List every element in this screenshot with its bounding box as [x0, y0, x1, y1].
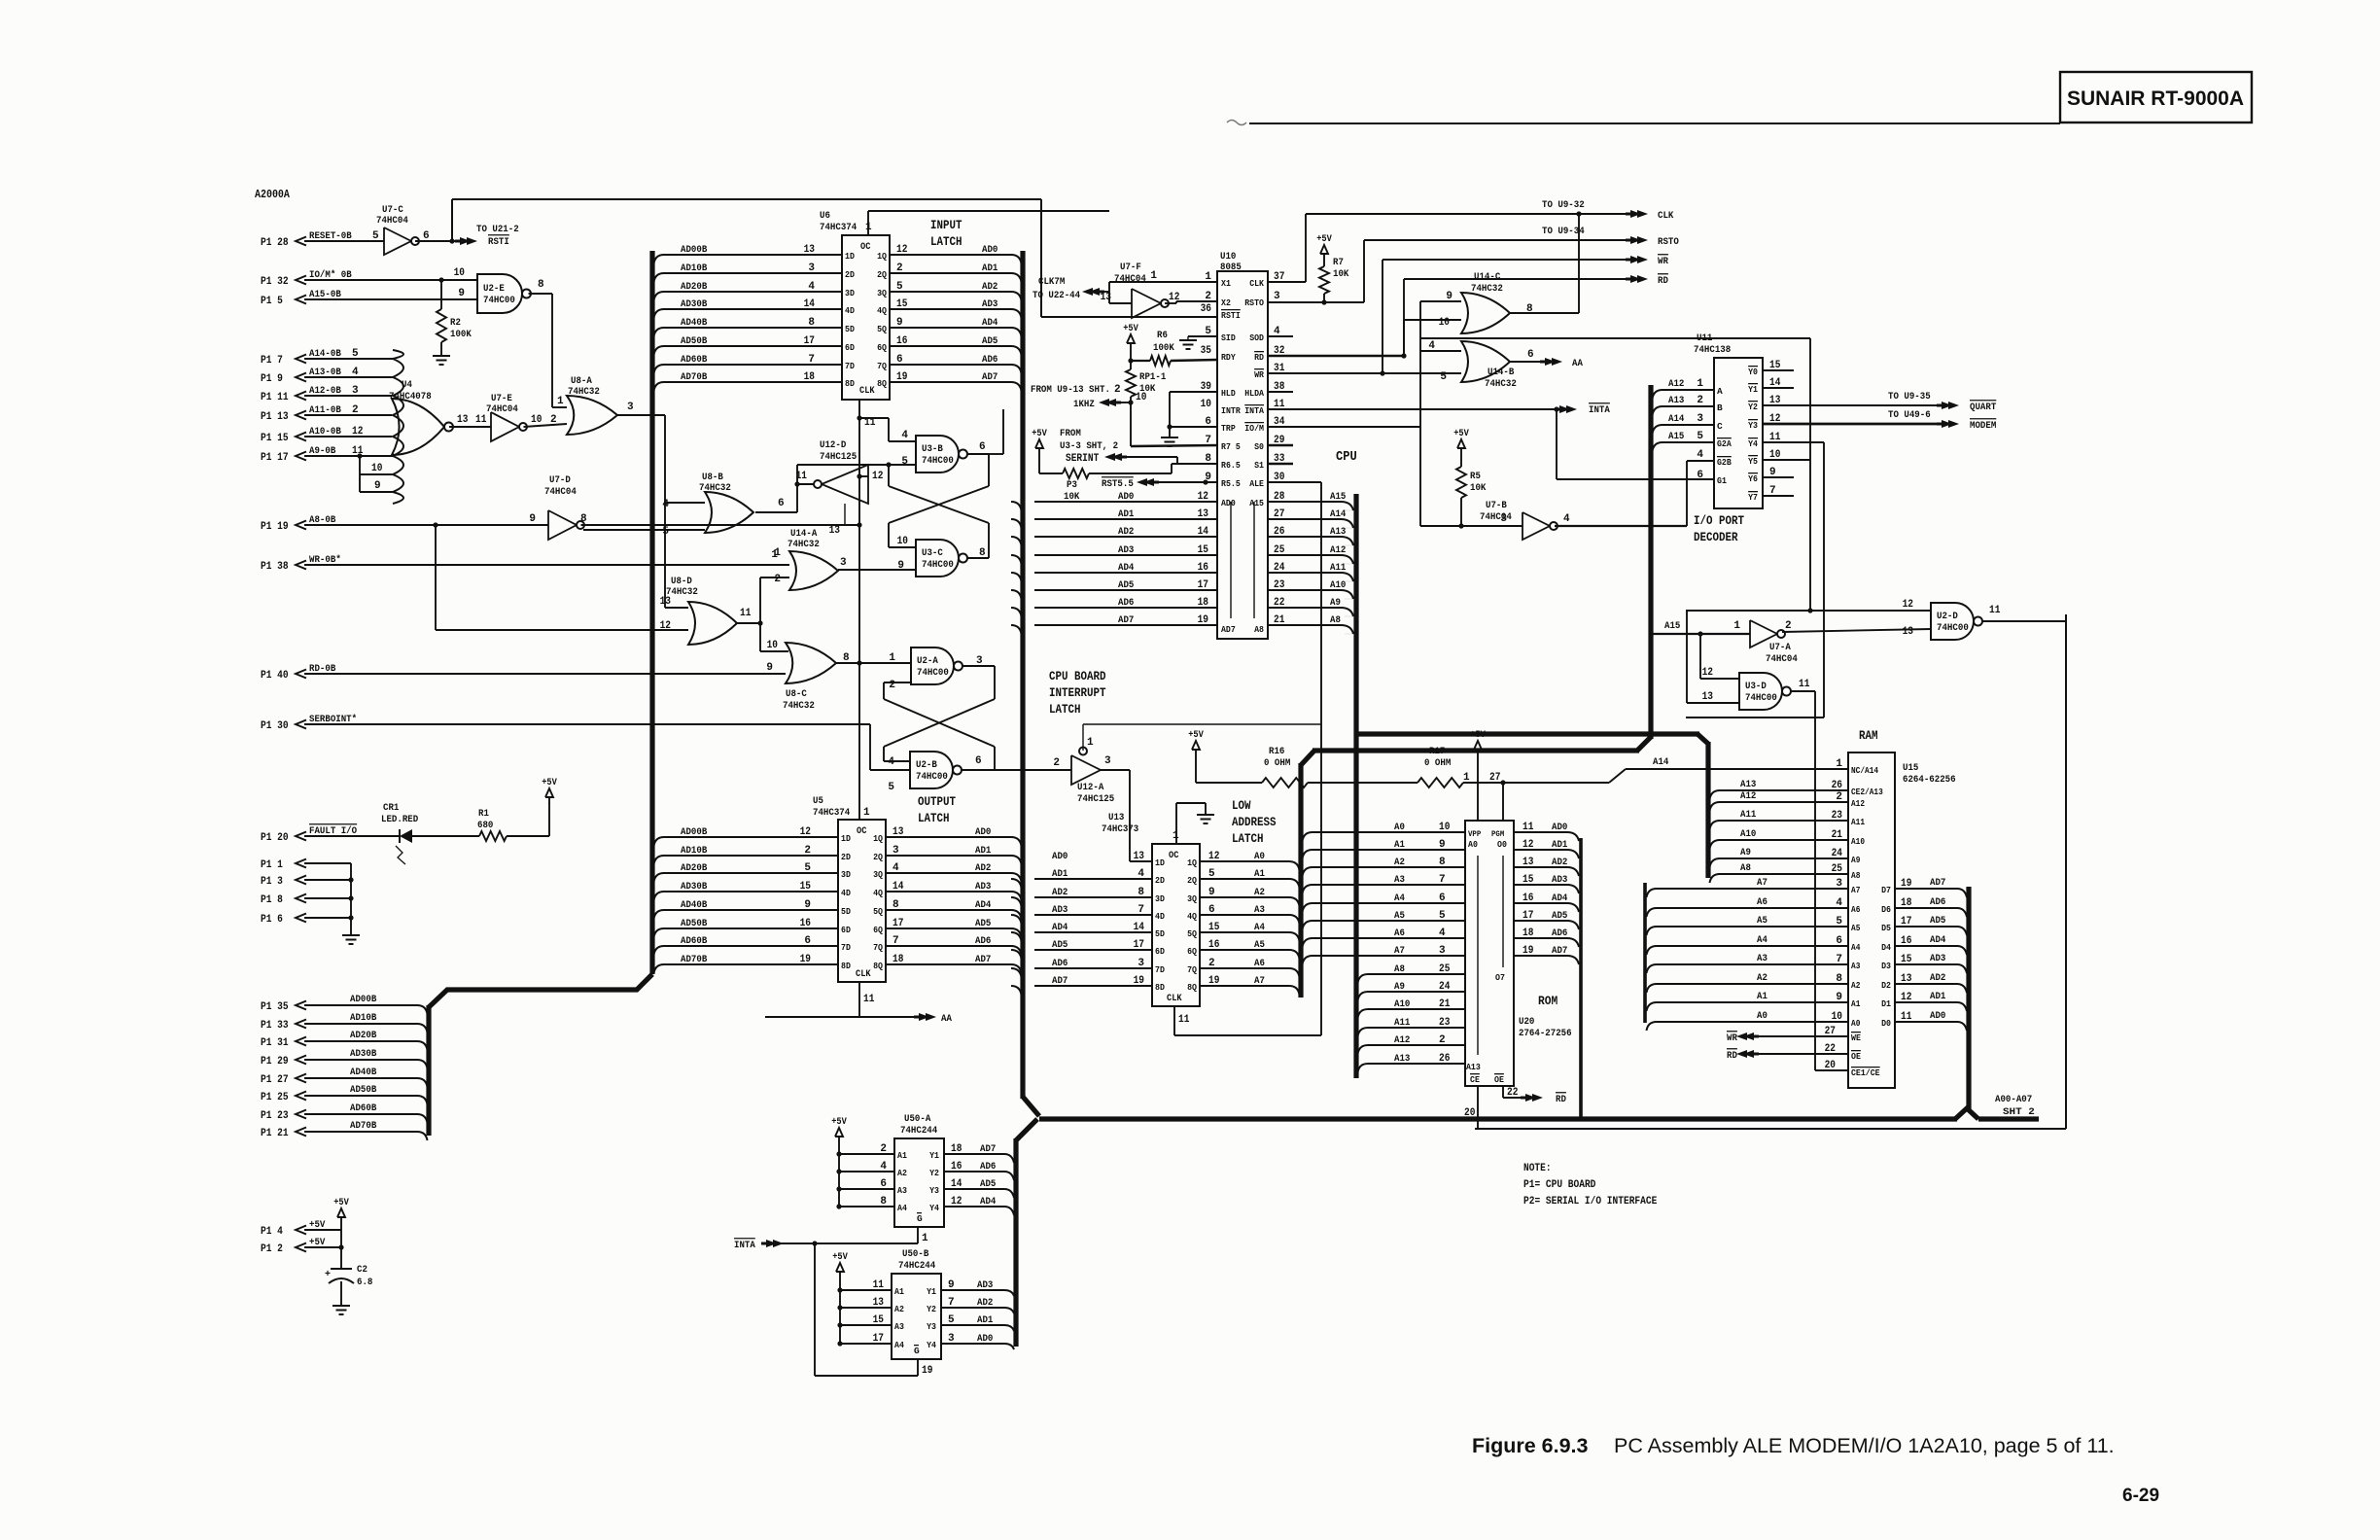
svg-text:B: B	[1717, 402, 1723, 413]
IC U6 74HC374 input latch box	[820, 210, 890, 400]
svg-text:74HC04: 74HC04	[376, 215, 408, 227]
svg-text:CPU BOARD: CPU BOARD	[1049, 670, 1106, 683]
svg-text:74HC125: 74HC125	[820, 451, 857, 463]
svg-text:ROM: ROM	[1538, 994, 1557, 1008]
svg-text:15: 15	[873, 1314, 885, 1326]
svg-text:5D: 5D	[841, 906, 851, 917]
svg-text:19: 19	[1522, 945, 1533, 957]
svg-text:CLK: CLK	[859, 386, 875, 397]
svg-text:14: 14	[1198, 526, 1209, 538]
svg-text:A11: A11	[1330, 562, 1346, 574]
svg-text:AD6: AD6	[982, 354, 997, 366]
svg-text:2: 2	[889, 680, 895, 691]
box bottom thin edge	[1475, 614, 2066, 1129]
svg-text:AD3: AD3	[1930, 953, 1945, 964]
HLD TRP ground wires	[1161, 392, 1217, 446]
+5V above R5	[1453, 429, 1469, 467]
svg-text:2: 2	[774, 574, 781, 585]
svg-text:AD10B: AD10B	[350, 1012, 377, 1024]
svg-text:9: 9	[1208, 887, 1215, 898]
RAM address rows	[1647, 758, 1883, 1031]
svg-text:INTA: INTA	[1589, 404, 1610, 416]
svg-text:+5V: +5V	[1188, 730, 1204, 741]
svg-text:13: 13	[660, 596, 672, 608]
wire G1 from INTA	[1557, 409, 1714, 479]
svg-text:P1 6: P1 6	[261, 914, 283, 926]
svg-text:P1 28: P1 28	[261, 237, 289, 249]
svg-text:AD0: AD0	[1118, 491, 1134, 503]
U5 CLK pin 11 wire AA	[765, 982, 924, 1017]
svg-text:U11: U11	[1697, 332, 1712, 344]
svg-text:1: 1	[1836, 758, 1842, 770]
P1 17 A9-0B	[261, 445, 393, 464]
svg-text:AD1: AD1	[975, 845, 991, 857]
svg-text:Y3: Y3	[1748, 420, 1758, 431]
svg-text:AD6: AD6	[975, 935, 991, 947]
svg-text:1: 1	[774, 547, 781, 559]
svg-text:AD6: AD6	[1118, 597, 1134, 609]
U11 G2B G1 labels	[1697, 449, 1732, 486]
svg-text:13: 13	[1134, 851, 1145, 862]
U5 pin rows	[654, 826, 1022, 973]
svg-text:74HC00: 74HC00	[1745, 692, 1777, 704]
svg-text:O0: O0	[1497, 839, 1507, 850]
ROM OE pin 22	[1503, 1086, 1530, 1099]
svg-text:P1 40: P1 40	[261, 670, 289, 682]
svg-text:A0: A0	[1254, 851, 1265, 862]
svg-text:11: 11	[873, 1279, 885, 1291]
label CPU BOARD INTERRUPT LATCH	[1049, 670, 1106, 717]
U13 pin rows	[1011, 851, 1300, 995]
svg-text:10: 10	[371, 463, 382, 474]
svg-text:LED.RED: LED.RED	[381, 814, 418, 825]
svg-text:8: 8	[580, 513, 587, 525]
svg-text:HLD: HLD	[1221, 388, 1236, 399]
svg-text:1: 1	[1150, 270, 1157, 282]
svg-text:A3: A3	[1254, 904, 1265, 916]
svg-text:U7-B: U7-B	[1486, 500, 1507, 511]
resistor R16 R17 A14 line	[1196, 756, 1848, 787]
capacitor C2 6.8	[325, 1264, 372, 1306]
ROM address rows	[1303, 822, 1466, 1072]
svg-text:NC/A14: NC/A14	[1851, 766, 1879, 776]
svg-text:17: 17	[1134, 939, 1144, 951]
svg-text:A10: A10	[1394, 998, 1410, 1010]
svg-text:CE: CE	[1470, 1074, 1480, 1085]
svg-text:7Q: 7Q	[873, 942, 883, 953]
svg-text:P1 32: P1 32	[261, 276, 289, 288]
svg-text:6Q: 6Q	[873, 925, 883, 935]
svg-text:RSTI: RSTI	[1221, 310, 1241, 321]
svg-text:G2B: G2B	[1717, 457, 1732, 468]
or-gate U4 74HC4078	[389, 350, 453, 504]
svg-text:P1 7: P1 7	[261, 355, 283, 367]
wire S0 stub	[1268, 444, 1293, 446]
svg-text:AD20B: AD20B	[681, 862, 708, 874]
svg-text:14: 14	[951, 1178, 962, 1190]
svg-text:INTA: INTA	[734, 1240, 755, 1251]
RAM control pins	[1825, 1026, 1880, 1078]
svg-text:26: 26	[1439, 1053, 1450, 1065]
svg-text:P1 20: P1 20	[261, 832, 289, 844]
svg-text:OC: OC	[857, 826, 866, 837]
svg-text:6: 6	[880, 1178, 887, 1190]
svg-text:74HC374: 74HC374	[813, 807, 850, 819]
svg-text:12: 12	[896, 244, 907, 256]
arrow INTA right	[1555, 403, 1610, 416]
svg-text:A4: A4	[1851, 943, 1861, 953]
wire U3-D in12	[1700, 634, 1739, 679]
svg-text:74HC244: 74HC244	[898, 1260, 935, 1272]
svg-text:9: 9	[529, 513, 536, 525]
svg-text:A10: A10	[1330, 579, 1346, 591]
svg-text:10: 10	[1201, 399, 1211, 410]
svg-text:AD30B: AD30B	[350, 1048, 377, 1060]
svg-text:D4: D4	[1881, 942, 1891, 953]
svg-text:4: 4	[880, 1161, 887, 1172]
svg-text:OUTPUT: OUTPUT	[918, 795, 956, 809]
svg-text:3Q: 3Q	[873, 869, 883, 880]
svg-text:CLK: CLK	[856, 969, 871, 980]
svg-text:3: 3	[627, 402, 634, 413]
wire U14-C out	[1510, 211, 1582, 313]
P1 13 A11-0B	[261, 404, 392, 423]
IC U13 74HC373 box	[1102, 812, 1200, 1006]
ground symbol	[342, 935, 360, 944]
svg-text:AD0: AD0	[977, 1333, 993, 1345]
svg-text:2: 2	[1208, 958, 1215, 969]
svg-text:2D: 2D	[1155, 875, 1165, 886]
svg-text:CLK: CLK	[1167, 994, 1182, 1004]
svg-text:P1 30: P1 30	[261, 720, 289, 732]
latch cross coupling	[884, 666, 995, 770]
svg-text:7: 7	[892, 935, 899, 947]
svg-text:74HC00: 74HC00	[922, 559, 954, 571]
svg-text:A9: A9	[1330, 597, 1341, 609]
svg-text:Y2: Y2	[927, 1304, 936, 1314]
svg-text:P1= CPU BOARD: P1= CPU BOARD	[1523, 1179, 1596, 1191]
U13 OC ground	[1176, 803, 1214, 844]
note text	[1523, 1163, 1658, 1207]
svg-text:TO U21-2: TO U21-2	[476, 224, 519, 235]
svg-text:18: 18	[1198, 597, 1209, 609]
P1 9 A13-0B	[261, 367, 393, 385]
svg-text:AD10B: AD10B	[681, 262, 708, 274]
svg-text:8Q: 8Q	[873, 961, 883, 971]
svg-text:4: 4	[1563, 513, 1570, 525]
svg-text:A8: A8	[1394, 963, 1405, 975]
svg-text:A15: A15	[1664, 620, 1680, 632]
svg-text:Y6: Y6	[1748, 473, 1758, 484]
wire U3-D in13	[1687, 611, 1739, 703]
arrow MODEM	[1888, 409, 1996, 432]
svg-text:7Q: 7Q	[1187, 964, 1197, 975]
svg-text:AD10B: AD10B	[681, 845, 708, 857]
svg-text:5D: 5D	[1155, 928, 1165, 939]
svg-text:7: 7	[1439, 874, 1446, 886]
svg-text:AD2: AD2	[1118, 526, 1134, 538]
svg-text:74HC00: 74HC00	[483, 295, 515, 306]
svg-text:12: 12	[800, 826, 811, 838]
svg-text:AD4: AD4	[1552, 892, 1567, 904]
svg-text:6D: 6D	[841, 925, 851, 935]
decoder frame right lower	[1686, 442, 1824, 717]
svg-text:5: 5	[1208, 868, 1215, 880]
svg-text:AD5: AD5	[980, 1178, 996, 1190]
svg-text:3D: 3D	[1155, 893, 1165, 904]
svg-text:ALE: ALE	[1249, 478, 1264, 489]
svg-text:AD3: AD3	[982, 298, 997, 310]
svg-text:A6: A6	[1757, 896, 1767, 908]
svg-text:A7: A7	[1757, 877, 1767, 889]
svg-text:A2: A2	[1394, 857, 1405, 868]
svg-text:1D: 1D	[845, 251, 855, 262]
svg-text:74HC00: 74HC00	[1937, 622, 1969, 634]
svg-text:74HC00: 74HC00	[917, 667, 949, 679]
svg-text:A: A	[1717, 386, 1723, 397]
svg-text:100K: 100K	[1153, 342, 1174, 354]
svg-text:U12-D: U12-D	[820, 439, 846, 451]
IC U50-B 74HC244 box	[892, 1248, 941, 1359]
svg-text:9: 9	[458, 288, 465, 299]
or U14-C 74HC32	[1439, 271, 1533, 333]
header rule line	[1227, 121, 2060, 125]
ground below C2	[332, 1306, 350, 1314]
svg-text:12: 12	[1198, 491, 1208, 503]
svg-text:A15: A15	[1330, 491, 1346, 503]
svg-text:A1: A1	[1851, 999, 1861, 1009]
bus label A00-A07 SHT 2	[1995, 1094, 2035, 1118]
svg-text:1D: 1D	[841, 833, 851, 844]
arrow WR at RAM	[1727, 1032, 1848, 1044]
IC U15 RAM box	[1848, 729, 1956, 1088]
svg-text:A2000A: A2000A	[255, 189, 290, 201]
svg-text:+5V: +5V	[542, 778, 557, 788]
svg-text:23: 23	[1439, 1017, 1451, 1029]
svg-text:9: 9	[766, 662, 773, 674]
svg-text:U14-B: U14-B	[1487, 367, 1515, 378]
arrow INTA to U50	[734, 1239, 918, 1251]
svg-text:A1: A1	[1254, 868, 1265, 880]
svg-text:A11: A11	[1740, 809, 1756, 821]
svg-text:74HC04: 74HC04	[1766, 653, 1798, 665]
+5V above R6	[1123, 324, 1138, 361]
svg-text:15: 15	[1522, 874, 1534, 886]
wire X1	[1109, 270, 1217, 282]
svg-text:AD40B: AD40B	[350, 1067, 377, 1078]
svg-text:AD7: AD7	[1052, 975, 1067, 987]
svg-text:CE1/CE: CE1/CE	[1851, 1067, 1880, 1078]
svg-text:P1 35: P1 35	[261, 1001, 289, 1013]
svg-text:R5.5: R5.5	[1221, 478, 1241, 489]
svg-text:AD0: AD0	[975, 826, 991, 838]
svg-text:Y3: Y3	[929, 1185, 939, 1196]
U11 output rows	[1748, 360, 1946, 503]
svg-text:R16: R16	[1269, 746, 1284, 757]
svg-text:74HC125: 74HC125	[1077, 793, 1114, 805]
wire U6 CLK vertical	[857, 400, 875, 820]
U6 OC pin wire	[868, 211, 1109, 235]
svg-text:C2: C2	[357, 1264, 367, 1276]
U4 extra input rows 10 and 9	[357, 453, 393, 492]
svg-text:4: 4	[808, 281, 815, 293]
svg-text:6D: 6D	[1155, 946, 1165, 957]
wire U8-B out node	[755, 465, 814, 512]
nand U2-D 74HC00	[1903, 599, 2001, 640]
svg-text:AD5: AD5	[1552, 910, 1567, 922]
svg-text:P1 25: P1 25	[261, 1092, 289, 1103]
svg-text:36: 36	[1201, 303, 1211, 315]
+5V R16	[1188, 730, 1204, 783]
svg-text:0 OHM: 0 OHM	[1264, 757, 1290, 769]
svg-text:DECODER: DECODER	[1694, 531, 1738, 544]
svg-text:AD2: AD2	[977, 1297, 993, 1309]
svg-text:16: 16	[951, 1161, 962, 1172]
svg-text:AD7: AD7	[1552, 945, 1567, 957]
svg-text:7: 7	[1137, 904, 1144, 916]
svg-text:U2-B: U2-B	[916, 759, 937, 771]
svg-text:S1: S1	[1254, 460, 1264, 471]
svg-text:P1 3: P1 3	[261, 876, 283, 888]
svg-text:16: 16	[1522, 892, 1533, 904]
IC U50-A 74HC244 box	[894, 1113, 944, 1227]
svg-text:10K: 10K	[1064, 491, 1080, 503]
svg-text:RD: RD	[1727, 1050, 1737, 1062]
wire U8-B in4	[665, 502, 705, 504]
svg-text:2Q: 2Q	[877, 269, 887, 280]
svg-text:AD7: AD7	[975, 954, 991, 965]
svg-text:AD00B: AD00B	[681, 244, 708, 256]
U10 left pin labels	[1201, 271, 1241, 489]
svg-text:18: 18	[1522, 927, 1534, 939]
svg-text:AD00B: AD00B	[681, 826, 708, 838]
bus ROM-RAM addr link	[1356, 734, 1708, 878]
1KHZ arrow	[1099, 392, 1146, 406]
wire U3-D out to RAM CE	[1792, 691, 1849, 1070]
IC U20 ROM box	[1465, 821, 1572, 1086]
svg-text:13: 13	[829, 525, 841, 537]
svg-text:AD1: AD1	[1930, 991, 1945, 1002]
svg-text:3: 3	[1104, 755, 1111, 767]
svg-text:11: 11	[475, 414, 487, 426]
svg-text:A0: A0	[1394, 822, 1405, 833]
svg-text:2: 2	[1439, 1034, 1446, 1046]
svg-text:AD5: AD5	[1118, 579, 1134, 591]
svg-text:+5V: +5V	[1316, 234, 1332, 245]
svg-text:8Q: 8Q	[877, 378, 887, 389]
svg-text:AD0: AD0	[1552, 822, 1567, 833]
svg-text:OC: OC	[860, 242, 870, 253]
wire S1 stub	[1268, 463, 1293, 465]
svg-text:A4: A4	[1254, 922, 1265, 933]
svg-text:P1 27: P1 27	[261, 1074, 289, 1086]
svg-text:AA: AA	[1572, 358, 1583, 369]
P1 35-21 AD bus rows	[261, 994, 428, 1140]
svg-text:+: +	[325, 1270, 331, 1280]
svg-text:+5V: +5V	[333, 1198, 349, 1208]
svg-text:21: 21	[1274, 614, 1285, 626]
svg-text:A4: A4	[1394, 892, 1405, 904]
svg-text:10: 10	[531, 414, 542, 426]
svg-text:WR: WR	[1658, 256, 1668, 267]
svg-text:AD40B: AD40B	[681, 899, 708, 911]
svg-text:11: 11	[1989, 605, 2001, 616]
svg-text:RST5.5: RST5.5	[1102, 478, 1134, 490]
resistor R3 10K	[1039, 464, 1217, 503]
svg-text:6: 6	[979, 441, 986, 453]
label LOW ADDRESS LATCH	[1232, 799, 1277, 846]
svg-text:74HC04: 74HC04	[486, 403, 518, 415]
wire U8-D out	[737, 577, 789, 651]
or U14-A 74HC32	[774, 528, 847, 590]
svg-text:2: 2	[1697, 395, 1703, 406]
svg-text:TO U22-44: TO U22-44	[1032, 290, 1080, 301]
svg-text:9: 9	[374, 480, 381, 492]
svg-text:6264-62256: 6264-62256	[1903, 774, 1956, 786]
svg-text:AD70B: AD70B	[681, 954, 708, 965]
svg-text:15: 15	[800, 881, 812, 892]
svg-text:R7: R7	[1333, 257, 1344, 268]
wire U2-D out	[1983, 620, 2067, 622]
svg-text:A2: A2	[1851, 981, 1860, 991]
svg-text:U2-D: U2-D	[1937, 611, 1958, 622]
svg-text:A3: A3	[1394, 874, 1405, 886]
svg-text:AD30B: AD30B	[681, 881, 708, 892]
TRP wire	[1170, 426, 1217, 428]
+5V VPP	[1463, 730, 1500, 784]
svg-text:4Q: 4Q	[873, 888, 883, 898]
svg-text:U7-F: U7-F	[1120, 262, 1141, 273]
svg-text:LATCH: LATCH	[930, 235, 962, 249]
resistor R1 680	[477, 808, 507, 841]
svg-text:A12: A12	[1668, 378, 1684, 390]
svg-text:17: 17	[804, 335, 815, 347]
svg-text:AD0: AD0	[1221, 498, 1236, 508]
svg-text:74HC32: 74HC32	[783, 700, 815, 712]
svg-text:INTERRUPT: INTERRUPT	[1049, 686, 1106, 700]
svg-text:13: 13	[1198, 508, 1209, 520]
svg-text:+5V: +5V	[832, 1252, 848, 1263]
svg-text:1: 1	[863, 807, 870, 819]
wire INTA to U50-B G	[815, 1243, 918, 1376]
svg-text:74HC00: 74HC00	[922, 455, 954, 467]
svg-text:P2= SERIAL I/O INTERFACE: P2= SERIAL I/O INTERFACE	[1523, 1196, 1658, 1207]
svg-text:A9: A9	[1851, 856, 1860, 865]
svg-text:22: 22	[1274, 597, 1284, 609]
svg-text:G: G	[914, 1346, 920, 1356]
wire top rail	[452, 199, 1041, 241]
wire U3-B out to INTR	[989, 409, 1003, 454]
wire U2-B out to U12-A	[995, 757, 1071, 770]
svg-text:A4: A4	[1757, 934, 1767, 946]
svg-text:D1: D1	[1881, 998, 1891, 1009]
svg-text:P1 4: P1 4	[261, 1226, 283, 1238]
svg-text:U20: U20	[1519, 1016, 1534, 1028]
svg-text:3: 3	[840, 557, 847, 569]
wire U8-A out	[617, 415, 665, 608]
label FROM U3-3	[1060, 428, 1118, 452]
svg-text:2: 2	[1114, 384, 1121, 396]
svg-text:3Q: 3Q	[1187, 893, 1197, 904]
P1 40 RD-0B	[261, 662, 786, 682]
wire WR out	[1268, 260, 1635, 376]
svg-text:3: 3	[892, 845, 899, 857]
P1 30 SERBOINT*	[261, 714, 910, 770]
svg-text:13: 13	[457, 414, 469, 426]
svg-text:11: 11	[863, 994, 875, 1005]
svg-text:VPP: VPP	[1468, 829, 1481, 839]
svg-text:26: 26	[1274, 526, 1284, 538]
